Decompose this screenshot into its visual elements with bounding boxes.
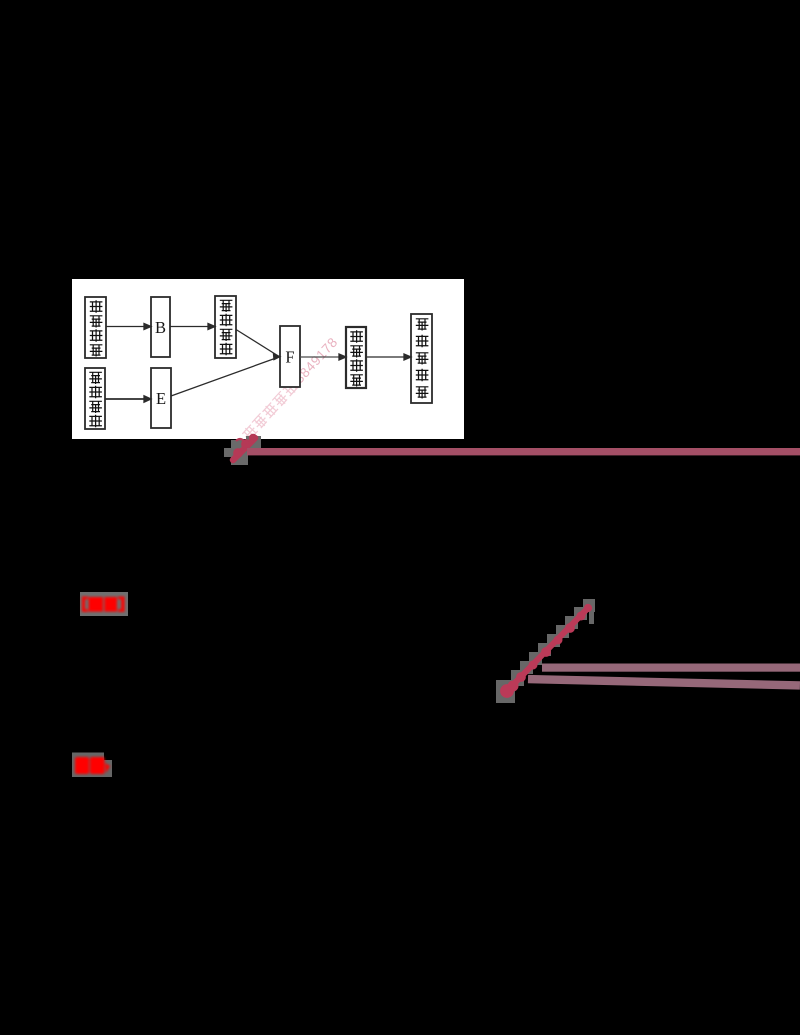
box 路由复测: [85, 297, 106, 358]
box E: [151, 368, 171, 428]
box 单盘检验: [85, 368, 105, 429]
svg-text:F: F: [285, 348, 294, 367]
box texts: vertical hanzi placeholders: [89, 300, 428, 427]
maroon underline lower right: [528, 675, 800, 690]
red stamp 2: grey blob with red 答:: [72, 753, 112, 778]
maroon underline upper right: [542, 664, 800, 672]
letters B E F: [155, 318, 295, 408]
单盘检验: [89, 372, 102, 384]
flowchart: [85, 296, 432, 429]
pink diagonal watermark over white panel: [240, 334, 341, 442]
box 光缆接续: [346, 327, 366, 388]
svg-text:B: B: [155, 318, 166, 337]
敷设子管 -> F diagonal: [236, 330, 278, 356]
diagonal pen annotation: crimson stroke: [501, 604, 592, 697]
box 敷设子管: [215, 296, 236, 358]
long maroon underline at y~451: [247, 448, 800, 455]
diagonal pen annotation: grey halo steps: [496, 599, 595, 703]
光缆接续: [350, 330, 363, 343]
box F: [280, 326, 300, 387]
box 中继段测试: [411, 314, 432, 403]
E -> F diagonal: [171, 358, 278, 397]
路由复测 -> B: [106, 326, 146, 328]
white figure panel: [72, 279, 464, 439]
中继段测试: [416, 319, 429, 331]
arrows: [105, 324, 411, 403]
路由复测: [90, 300, 103, 313]
敷设子管: [220, 300, 233, 312]
box B: [151, 297, 170, 357]
red stamp 1: grey box with red CJK blob: [80, 592, 128, 616]
dark watermark tail below panel: grey halo blocks: [224, 436, 261, 465]
B -> 敷设子管: [170, 326, 210, 328]
单盘检验 -> E: [105, 398, 146, 400]
F -> 光缆接续: [300, 356, 341, 358]
光缆接续 -> 中继段测试: [366, 356, 406, 358]
svg-text:E: E: [156, 389, 166, 408]
dark watermark tail: crimson stroke: [233, 434, 257, 460]
